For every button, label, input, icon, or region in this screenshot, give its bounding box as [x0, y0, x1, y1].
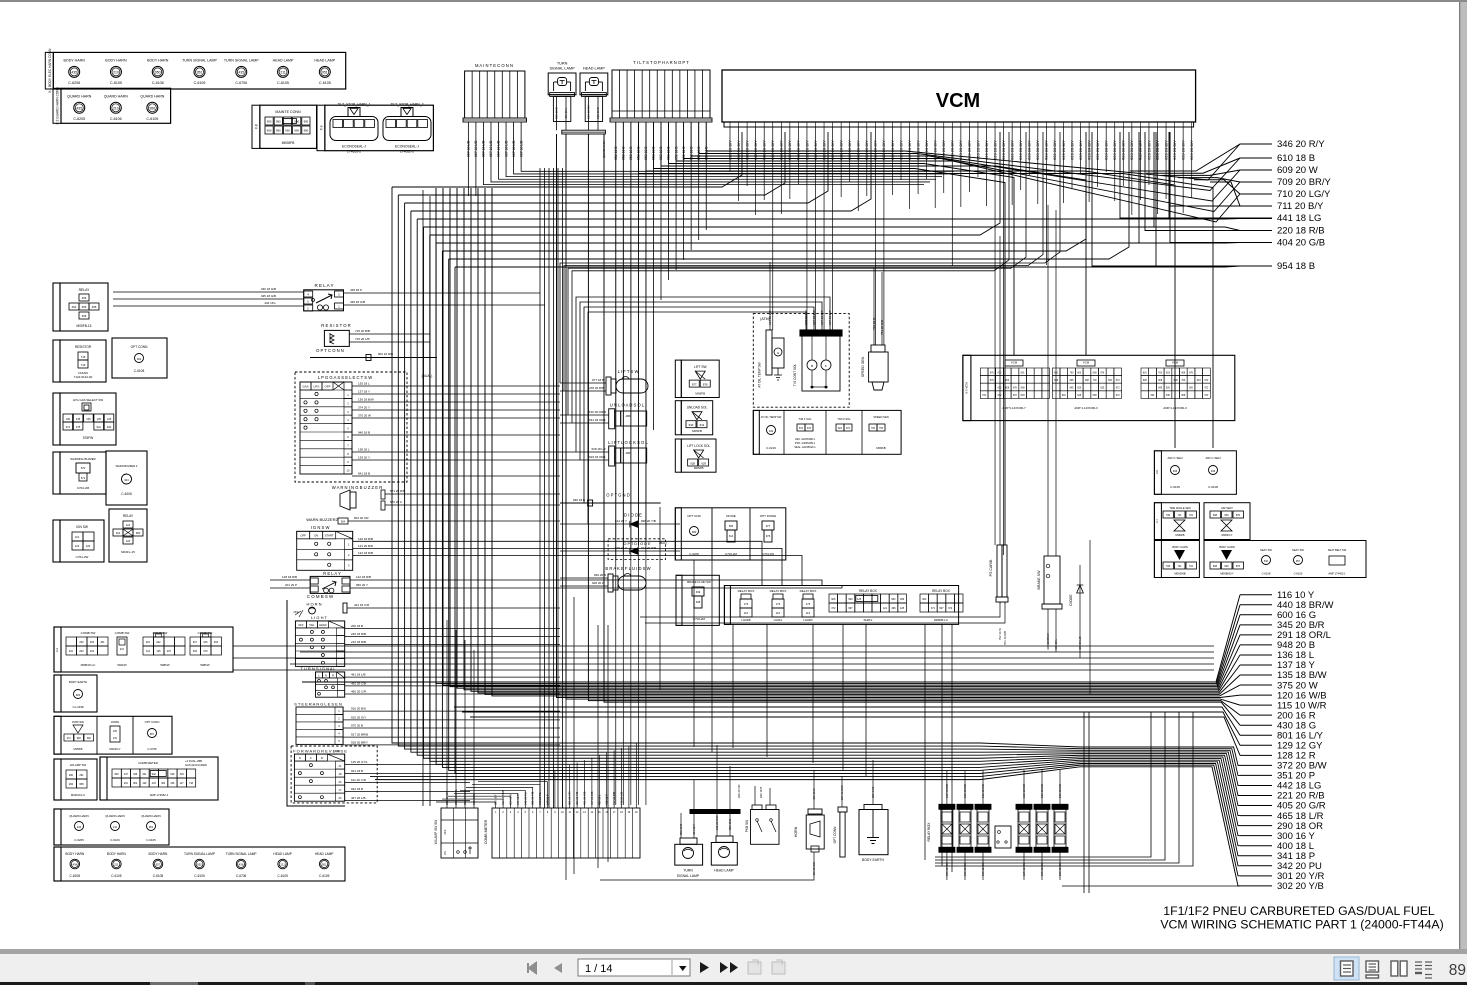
- svg-text:RELAY: RELAY: [123, 514, 134, 518]
- wire from VCM pin 18: [874, 132, 876, 345]
- svg-text:ABF: ABF: [625, 451, 630, 455]
- svg-text:200: 200: [79, 650, 84, 653]
- svg-text:918: 918: [214, 641, 219, 644]
- svg-text:137 18 Y: 137 18 Y: [358, 390, 370, 394]
- wire from VCM pin 37: [1037, 132, 1039, 204]
- wire from VCM pin 55: [1191, 132, 1193, 198]
- wire from VCM pin 11: [815, 132, 817, 330]
- svg-text:711 20 B/Y: 711 20 B/Y: [1277, 201, 1324, 212]
- svg-text:SPEED SEN: SPEED SEN: [873, 415, 888, 419]
- wire from MAINTE comb pin 5: [499, 122, 936, 179]
- svg-text:990 18 B: 990 18 B: [573, 498, 585, 502]
- svg-text:X-2 GUARD HARN CONN: X-2 GUARD HARN CONN: [56, 86, 60, 124]
- svg-text:918 20 BR/Y: 918 20 BR/Y: [351, 740, 368, 744]
- svg-text:667 18 L/B: 667 18 L/B: [504, 140, 508, 157]
- svg-text:467 20 L/B: 467 20 L/B: [1078, 636, 1082, 650]
- svg-text:637 18 B/P: 637 18 B/P: [820, 310, 824, 325]
- svg-text:948: 948: [696, 600, 701, 604]
- wire to 609 20 W: [1162, 170, 1240, 175]
- svg-text:M A I N T E C O N N: M A I N T E C O N N: [475, 63, 513, 68]
- svg-text:F O R W A R D R E V E R S E: F O R W A R D R E V E R S E: [293, 749, 347, 754]
- svg-text:120: 120: [126, 539, 131, 543]
- svg-text:M04FW-LC: M04FW-LC: [71, 793, 85, 797]
- svg-text:X-5 VCM: X-5 VCM: [965, 382, 969, 394]
- opt diode dashed: [608, 539, 666, 560]
- wire from VCM pin 27: [951, 132, 953, 266]
- svg-text:459 18 L: 459 18 L: [564, 107, 568, 119]
- wire from VCM pin 54: [1182, 132, 1184, 213]
- svg-text:OFF: OFF: [443, 829, 447, 835]
- wire mid bus 3: [233, 657, 1214, 659]
- wire from TILT comb pin 11: [690, 122, 692, 250]
- svg-text:OFF: OFF: [325, 385, 331, 389]
- wire from TILT comb pin 9: [675, 122, 677, 270]
- svg-text:402: 402: [90, 650, 95, 653]
- svg-text:949: 949: [170, 773, 175, 776]
- svg-text:BODY HARN: BODY HARN: [1219, 545, 1235, 549]
- svg-text:M05FB-15: M05FB-15: [77, 324, 92, 328]
- svg-text:O P T G N D: O P T G N D: [606, 493, 630, 498]
- svg-text:942: 942: [152, 773, 157, 776]
- wire from VCM pin 45: [1105, 132, 1107, 172]
- svg-text:TILT_STOP_HARN_2: TILT_STOP_HARN_2: [390, 103, 423, 107]
- svg-text:136 18 B/W: 136 18 B/W: [358, 398, 374, 402]
- wire relay-box drop 6: [924, 624, 926, 860]
- quard harn bottom box: [54, 809, 169, 845]
- VCM controller box: [722, 70, 1196, 122]
- svg-text:7122-5122-60: 7122-5122-60: [74, 375, 93, 379]
- net label 710 20 LG/Y: [1240, 193, 1272, 195]
- svg-text:922 18 B: 922 18 B: [351, 787, 363, 791]
- svg-text:249 20 P: 249 20 P: [546, 794, 550, 805]
- lift sw connector box: [681, 360, 719, 397]
- w/lamp sw connector box: [54, 759, 97, 800]
- wire tilt deep 4: [637, 122, 639, 805]
- wire from VCM pin 6: [772, 132, 774, 330]
- svg-text:950: 950: [149, 106, 155, 110]
- svg-text:213 18 R/Y: 213 18 R/Y: [586, 104, 590, 119]
- svg-text:701 16 R/B: 701 16 R/B: [1003, 631, 1007, 645]
- svg-text:132 18 R/B: 132 18 R/B: [1040, 784, 1044, 798]
- svg-text:711: 711: [1178, 514, 1183, 517]
- wire from VCM pin 30: [977, 132, 979, 177]
- svg-text:VCM: VCM: [1011, 361, 1018, 365]
- svg-text:PSO: A4035189-1: PSO: A4035189-1: [795, 442, 816, 445]
- comb sw connector long box: [54, 627, 233, 672]
- svg-text:611: 611: [146, 650, 151, 653]
- wire 136 18 B/W: [352, 401, 560, 403]
- svg-text:132 18 R/B: 132 18 R/B: [981, 784, 985, 798]
- svg-text:456: 456: [82, 296, 87, 300]
- svg-text:M06FB: M06FB: [876, 446, 885, 450]
- wire bus B7 from VCM to lower band: [430, 132, 1000, 235]
- net label 128 12 R: [1240, 754, 1272, 756]
- svg-text:372: 372: [948, 607, 953, 610]
- svg-text:976: 976: [766, 534, 771, 538]
- svg-text:349 20 P/L: 349 20 P/L: [538, 791, 542, 805]
- svg-text:LG0FB: LG0FB: [741, 618, 750, 622]
- svg-text:508FW: 508FW: [200, 663, 210, 667]
- svg-text:374 20 Y: 374 20 Y: [358, 406, 370, 410]
- svg-text:907: 907: [939, 607, 944, 610]
- wire 139 20 Y: [352, 459, 560, 461]
- svg-text:SIGNAL LAMP: SIGNAL LAMP: [550, 67, 576, 71]
- body harn bottom long box: [54, 847, 345, 881]
- svg-text:AIR C SEN: AIR C SEN: [1167, 456, 1182, 460]
- svg-text:N: N: [299, 756, 301, 760]
- wire to 441 18 LG: [1120, 132, 1240, 218]
- svg-text:132 18 R/B: 132 18 R/B: [1058, 784, 1062, 798]
- wire from VCM pin 19: [883, 132, 885, 345]
- svg-text:904: 904: [341, 521, 346, 524]
- wire mid bus 4: [290, 663, 1214, 665]
- wire bus A1 from tilt comb: [705, 122, 707, 151]
- wire 950 18 B from head lamp: [597, 96, 599, 130]
- svg-text:977 20 R/B: 977 20 R/B: [641, 546, 656, 550]
- extra wall verticals: [422, 190, 424, 806]
- svg-text:D I O D E: D I O D E: [624, 513, 642, 518]
- net label 115 10 W/R: [1240, 704, 1272, 706]
- net label 351 20 P: [1240, 774, 1272, 776]
- svg-text:441 18 L: 441 18 L: [1054, 639, 1058, 650]
- svg-text:BODY HARN: BODY HARN: [65, 852, 85, 856]
- svg-text:RELAY BOX: RELAY BOX: [859, 589, 878, 593]
- svg-text:576FW: 576FW: [83, 436, 93, 440]
- svg-text:941: 941: [97, 425, 102, 429]
- svg-text:C-6105: C-6105: [319, 874, 330, 878]
- svg-text:921 18 B: 921 18 B: [351, 769, 363, 773]
- svg-text:M05FB: M05FB: [695, 392, 705, 396]
- svg-text:120 18 R/B: 120 18 R/B: [358, 537, 373, 541]
- svg-text:RELAY: RELAY: [79, 288, 91, 292]
- wire bus A7 from tilt comb: [660, 122, 662, 166]
- wire from VCM pin 3: [746, 132, 748, 186]
- svg-text:O P T C O N N: O P T C O N N: [316, 348, 344, 353]
- wire from VCM pin 42: [1080, 132, 1082, 173]
- svg-text:637 18 B/P: 637 18 B/P: [768, 310, 772, 325]
- svg-text:C-6108: C-6108: [1262, 572, 1271, 576]
- svg-text:R: R: [321, 756, 323, 760]
- comb meter connector box: [100, 757, 218, 800]
- svg-text:135: 135: [97, 417, 102, 421]
- svg-text:710: 710: [1189, 565, 1194, 568]
- svg-text:957: 957: [1296, 560, 1301, 563]
- svg-text:631: 631: [700, 423, 705, 427]
- svg-text:902: 902: [922, 598, 927, 601]
- svg-text:I G N S W: I G N S W: [311, 525, 330, 530]
- wire tilt deep 3: [630, 122, 632, 805]
- wire from VCM pin 44: [1097, 132, 1099, 187]
- wire from VCM pin 1: [729, 132, 731, 172]
- net label 372 20 B/W: [1240, 764, 1272, 766]
- svg-text:C702-2M: C702-2M: [693, 617, 705, 621]
- svg-text:LIFT SW: LIFT SW: [694, 365, 707, 369]
- wire 302 20 Y/B long horizontal: [1062, 885, 1240, 887]
- net label 375 20 W: [1240, 684, 1272, 686]
- svg-text:174655-2: 174655-2: [347, 150, 361, 154]
- wire to net 801 16 L/Y: [454, 707, 1240, 735]
- svg-text:C-6105: C-6105: [146, 117, 158, 121]
- wire from TILT comb pin 5: [645, 122, 647, 540]
- svg-text:637 18 B/P: 637 18 B/P: [828, 310, 832, 325]
- net label 440 18 BR/W: [1240, 604, 1272, 606]
- wire to net 375 20 W: [492, 188, 1240, 696]
- svg-text:342: 342: [769, 429, 774, 433]
- wire to net 291 18 OR/L: [457, 188, 1240, 688]
- VCM connector detail box: [963, 355, 1235, 420]
- net label 137 18 Y: [1240, 664, 1272, 666]
- svg-text:M06FCY: M06FCY: [1221, 533, 1232, 537]
- svg-text:201: 201: [116, 531, 121, 535]
- view icon continuous: [1366, 961, 1379, 972]
- wire to 610 18 B: [1146, 158, 1240, 173]
- svg-text:H O R N: H O R N: [306, 602, 321, 607]
- svg-text:631 18 OR/L: 631 18 OR/L: [589, 418, 606, 422]
- TILT_STOP_HARN connector box: [325, 105, 434, 151]
- svg-text:478 20 R/B: 478 20 R/B: [589, 386, 604, 390]
- svg-text:OPT DIODE: OPT DIODE: [760, 514, 776, 518]
- svg-text:374: 374: [66, 425, 71, 429]
- svg-text:1 / 14: 1 / 14: [585, 963, 613, 975]
- svg-text:T M CONT SOL: T M CONT SOL: [793, 364, 797, 387]
- svg-text:502FW: 502FW: [117, 663, 127, 667]
- wire from VCM pin 21: [900, 132, 902, 180]
- wire bus B11 from VCM to lower band: [455, 266, 1156, 268]
- svg-text:SEAL: A4035190-1: SEAL: A4035190-1: [794, 446, 816, 449]
- svg-text:AIR C SEN: AIR C SEN: [1205, 456, 1220, 460]
- svg-text:R E L A Y: R E L A Y: [323, 571, 341, 576]
- svg-text:122: 122: [126, 523, 131, 527]
- svg-text:TIRE ANGLE SEN: TIRE ANGLE SEN: [1169, 506, 1190, 510]
- svg-text:709: 709: [1166, 514, 1171, 517]
- net label 954 18 B: [1240, 265, 1272, 267]
- svg-text:915 20 G/Y: 915 20 G/Y: [351, 715, 366, 719]
- svg-text:435: 435: [71, 70, 77, 74]
- svg-text:508FW: 508FW: [160, 663, 170, 667]
- wire 459 18 L from turn lamp: [565, 96, 567, 130]
- ps carib feed: [999, 236, 1001, 545]
- svg-text:TURN: TURN: [557, 62, 568, 66]
- svg-text:(BAL): (BAL): [659, 541, 667, 545]
- svg-text:RELAY BOX: RELAY BOX: [800, 589, 817, 593]
- svg-text:TURN SIGNAL LAMP: TURN SIGNAL LAMP: [184, 852, 215, 856]
- svg-text:466: 466: [891, 607, 896, 610]
- wire from TILT comb pin 10: [683, 122, 685, 260]
- connector box second row (quard harn): [61, 88, 171, 123]
- svg-text:SH0FL: SH0FL: [864, 618, 873, 622]
- svg-text:OFF: OFF: [300, 534, 306, 538]
- brake fluid sw connector box: [676, 575, 719, 625]
- svg-text:571 20 R/B: 571 20 R/B: [390, 489, 405, 493]
- resistor block (left column): [60, 340, 106, 382]
- svg-text:951: 951: [322, 70, 328, 74]
- svg-text:608: 608: [1213, 565, 1218, 568]
- svg-text:916: 916: [193, 650, 198, 653]
- svg-text:176: 176: [806, 602, 811, 606]
- svg-text:441 18 LG: 441 18 LG: [1277, 213, 1321, 224]
- svg-text:BODY HARN: BODY HARN: [105, 58, 127, 62]
- svg-text:T U R N S I G N A L: T U R N S I G N A L: [300, 666, 336, 671]
- svg-text:120: 120: [86, 544, 91, 548]
- svg-text:876: 876: [703, 382, 708, 386]
- net label 610 18 B: [1240, 157, 1272, 159]
- svg-text:BODY HARN: BODY HARN: [64, 58, 86, 62]
- svg-text:715: 715: [81, 355, 86, 359]
- wire bus B6 from VCM to lower band: [424, 226, 1155, 228]
- relay box strip: [724, 586, 958, 625]
- svg-text:C-6208: C-6208: [68, 81, 80, 85]
- tire angle sen box: [1154, 503, 1199, 540]
- wire from MAINTE comb pin 7: [514, 122, 948, 174]
- svg-text:L I G H T: L I G H T: [311, 615, 328, 620]
- wire bus C6 below VCM: [580, 302, 822, 460]
- svg-text:211: 211: [280, 863, 285, 867]
- svg-text:432 18 L: 432 18 L: [264, 301, 276, 305]
- svg-text:946: 946: [1224, 514, 1229, 517]
- wires above ATM: [769, 262, 771, 330]
- svg-text:QUARD HARN: QUARD HARN: [141, 814, 160, 818]
- svg-text:AMP 4-1437290-0: AMP 4-1437290-0: [1074, 406, 1098, 410]
- wire bus B5 from VCM to lower band: [417, 218, 1169, 220]
- svg-text:709 20 BR/Y: 709 20 BR/Y: [1277, 177, 1332, 188]
- view icon single-page (selected): [1334, 957, 1359, 980]
- svg-text:902 16 R/B: 902 16 R/B: [378, 352, 393, 356]
- svg-text:C-6105: C-6105: [1294, 572, 1303, 576]
- svg-text:X-3: X-3: [55, 647, 59, 652]
- svg-text:C-6205: C-6205: [74, 838, 84, 842]
- svg-text:LPG GAS SELECT SW: LPG GAS SELECT SW: [73, 398, 103, 402]
- svg-text:570: 570: [81, 466, 86, 470]
- svg-text:C-6706: C-6706: [236, 874, 247, 878]
- wire to net 345 20 B/R: [450, 188, 1240, 687]
- svg-text:QUARD HARN: QUARD HARN: [69, 814, 88, 818]
- svg-text:QUARD HARN: QUARD HARN: [67, 94, 92, 98]
- wire from VCM pin 52: [1165, 132, 1167, 199]
- svg-text:M05FB: M05FB: [692, 429, 702, 433]
- svg-text:HEAD LAMP: HEAD LAMP: [315, 852, 333, 856]
- wire from VCM pin 14: [840, 132, 842, 197]
- toolbar separator band: [0, 949, 1467, 954]
- svg-text:200 18 B: 200 18 B: [351, 624, 363, 628]
- VCM pin stub wires and labels: [729, 127, 731, 132]
- svg-text:WARNING BUZZER: WARNING BUZZER: [70, 457, 95, 461]
- wire right-lower vertical 4: [935, 712, 1193, 866]
- net label 116 10 Y: [1240, 594, 1272, 596]
- svg-text:920 14 B: 920 14 B: [871, 787, 875, 798]
- svg-text:B: B: [811, 364, 813, 368]
- svg-text:AMP 5-1437290-7: AMP 5-1437290-7: [1002, 406, 1026, 410]
- wire 374 20 Y: [352, 409, 560, 411]
- svg-text:L I F T S W: L I F T S W: [618, 369, 639, 374]
- svg-text:718 20 L/B: 718 20 L/B: [620, 792, 624, 805]
- wire from VCM pin 35: [1020, 132, 1022, 190]
- wire bus C7 below VCM: [584, 307, 814, 503]
- svg-text:990: 990: [304, 129, 309, 133]
- net label 345 20 B/R: [1240, 624, 1272, 626]
- svg-text:430 18 G: 430 18 G: [812, 788, 816, 800]
- svg-text:571: 571: [81, 476, 86, 480]
- svg-text:121: 121: [883, 607, 888, 610]
- svg-text:948: 948: [77, 737, 82, 740]
- wire 952 18 B from turn lamp: [556, 96, 558, 130]
- wire center bundle 2: [544, 168, 546, 808]
- svg-text:START: START: [325, 534, 334, 538]
- wire to net 120 16 W/B: [557, 134, 1241, 698]
- wire from TILT comb pin 8: [668, 122, 670, 280]
- svg-text:PWD SW: PWD SW: [72, 720, 84, 724]
- svg-text:401 20 C/B: 401 20 C/B: [583, 791, 587, 805]
- wire from VCM pin 5: [763, 132, 765, 200]
- svg-text:211: 211: [113, 825, 118, 829]
- svg-text:C-6706: C-6706: [147, 747, 157, 751]
- svg-text:M05FB: M05FB: [694, 466, 704, 470]
- bottom dark strip: [0, 982, 1467, 985]
- svg-text:M06DNB: M06DNB: [1174, 572, 1185, 576]
- svg-text:ECONOSEAL-J: ECONOSEAL-J: [342, 145, 366, 149]
- svg-text:431 18 C/R: 431 18 C/R: [812, 862, 816, 876]
- net label 430 18 G: [1240, 724, 1272, 726]
- wire from VCM pin 22: [909, 132, 911, 209]
- svg-text:915: 915: [203, 641, 208, 644]
- svg-text:VCM: VCM: [1172, 361, 1179, 365]
- wire from TILT comb pin 1: [615, 122, 617, 560]
- relay K2 (left column): [109, 509, 147, 562]
- lamp bar bottom: [690, 810, 740, 814]
- svg-text:640: 640: [1264, 560, 1269, 563]
- wire bus B4 from VCM to lower band: [411, 132, 871, 211]
- svg-text:C-6206: C-6206: [121, 492, 132, 496]
- svg-text:952 18 B: 952 18 B: [555, 107, 559, 119]
- svg-text:HORN: HORN: [794, 826, 798, 837]
- wire from VCM pin 36: [1028, 132, 1030, 175]
- svg-text:COMB SW: COMB SW: [115, 631, 130, 635]
- svg-text:125: 125: [156, 650, 161, 653]
- svg-text:BRAKE FLUID SW: BRAKE FLUID SW: [687, 580, 711, 584]
- svg-text:N: N: [325, 673, 327, 677]
- wire from VCM pin 48: [1131, 132, 1133, 215]
- svg-text:951: 951: [149, 825, 154, 829]
- svg-text:467 20 L/B: 467 20 L/B: [351, 796, 366, 800]
- svg-text:BODY HARN: BODY HARN: [1172, 545, 1188, 549]
- svg-text:LIFT LOCK SOL: LIFT LOCK SOL: [687, 444, 711, 448]
- svg-text:940 18 B: 940 18 B: [358, 431, 370, 435]
- wire component drop: [659, 507, 661, 690]
- svg-text:C-6105: C-6105: [194, 874, 205, 878]
- svg-text:C-6105: C-6105: [111, 874, 122, 878]
- svg-text:667 18 L/B: 667 18 L/B: [489, 140, 493, 157]
- svg-text:467: 467: [167, 650, 172, 653]
- svg-text:211: 211: [280, 70, 286, 74]
- svg-text:TAIL: TAIL: [309, 623, 315, 627]
- air c sen box: [1154, 451, 1236, 495]
- svg-text:977: 977: [766, 524, 771, 528]
- svg-text:HEAD LAMP: HEAD LAMP: [273, 852, 291, 856]
- wire to net 116 10 Y: [302, 595, 1240, 682]
- wire from VCM pin 40: [1062, 132, 1064, 203]
- svg-text:436 18 P: 436 18 P: [605, 794, 609, 805]
- svg-text:IGN SW: IGN SW: [76, 525, 88, 529]
- svg-text:435 18 P: 435 18 P: [350, 288, 362, 292]
- svg-text:174652-2: 174652-2: [400, 150, 414, 154]
- wire bus A3 from tilt comb: [690, 122, 692, 156]
- disabled rotate icons: [748, 962, 761, 974]
- wire from TILT comb pin 7: [660, 122, 662, 300]
- svg-text:272: 272: [67, 737, 72, 740]
- svg-text:921: 921: [146, 641, 151, 644]
- svg-text:VEC: A4035188-1: VEC: A4035188-1: [795, 438, 816, 441]
- svg-text:436: 436: [170, 782, 175, 785]
- wire bus A8 from tilt comb: [652, 122, 654, 169]
